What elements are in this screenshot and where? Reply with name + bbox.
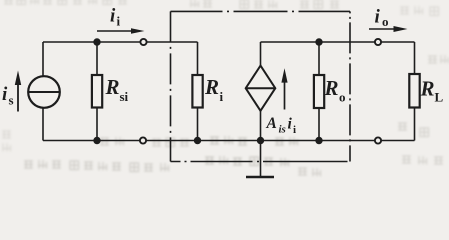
circuit ink <box>15 11 420 177</box>
wire: output top rail <box>261 41 415 43</box>
dashed box left edge <box>170 11 172 161</box>
svg-text:o: o <box>382 14 389 29</box>
label is <box>2 84 14 108</box>
junction dot Ro top <box>315 38 322 45</box>
label Rsi <box>105 75 129 104</box>
svg-text:i: i <box>110 6 116 27</box>
current source is (circle with bar) <box>28 76 60 108</box>
label Ri <box>204 75 224 104</box>
resistor RL <box>414 42 416 74</box>
dashed box bottom edge <box>171 161 351 163</box>
label io <box>375 7 389 30</box>
junction dot diamond bottom / ground node <box>257 137 264 144</box>
svg-text:R: R <box>105 75 120 99</box>
wire: input top rail <box>43 41 198 43</box>
svg-text:i: i <box>220 89 224 104</box>
wire: source left branch <box>42 42 44 141</box>
svg-text:si: si <box>120 89 129 104</box>
output terminal top (open circle) <box>375 39 381 45</box>
faint bleed-through rows (decorative) <box>2 0 449 177</box>
svg-text:R: R <box>420 77 435 101</box>
svg-text:R: R <box>324 76 339 100</box>
junction dot Ri bottom <box>194 137 201 144</box>
svg-text:i: i <box>375 7 381 28</box>
junction dot Rsi bottom <box>93 137 100 144</box>
resistor Ro <box>318 42 320 75</box>
arrow for ii <box>97 30 132 32</box>
svg-text:i: i <box>293 124 296 136</box>
resistor Ri <box>197 42 199 75</box>
wire: bottom ground rail <box>43 140 415 142</box>
ground <box>260 141 262 178</box>
junction dot Rsi top <box>93 38 100 45</box>
dashed box (amplifier boundary) top edge <box>171 10 351 12</box>
dashed box right edge <box>349 11 351 161</box>
dependent current source Ais*ii (diamond with bar) <box>246 66 276 111</box>
resistor Rsi <box>96 42 98 75</box>
svg-text:is: is <box>279 124 286 136</box>
svg-text:L: L <box>435 90 444 105</box>
svg-text:i: i <box>2 84 8 105</box>
svg-text:R: R <box>204 75 219 99</box>
arrow for is <box>17 83 19 112</box>
arrow beside diamond <box>284 81 286 110</box>
wire: diamond top/bottom branches <box>260 42 262 141</box>
junction dot Ro bottom <box>315 137 322 144</box>
label Ro <box>324 76 346 105</box>
label Ais ii <box>266 115 297 136</box>
svg-text:i: i <box>117 14 121 29</box>
input terminal top (open circle) <box>140 39 146 45</box>
svg-text:s: s <box>9 93 14 108</box>
arrow for io <box>369 28 395 30</box>
svg-text:o: o <box>339 90 346 105</box>
input terminal bottom (open circle) <box>140 137 146 143</box>
output terminal bottom (open circle) <box>375 137 381 143</box>
label ii <box>110 6 121 29</box>
svg-text:i: i <box>288 116 293 133</box>
label RL <box>420 77 444 105</box>
svg-text:A: A <box>266 115 277 132</box>
